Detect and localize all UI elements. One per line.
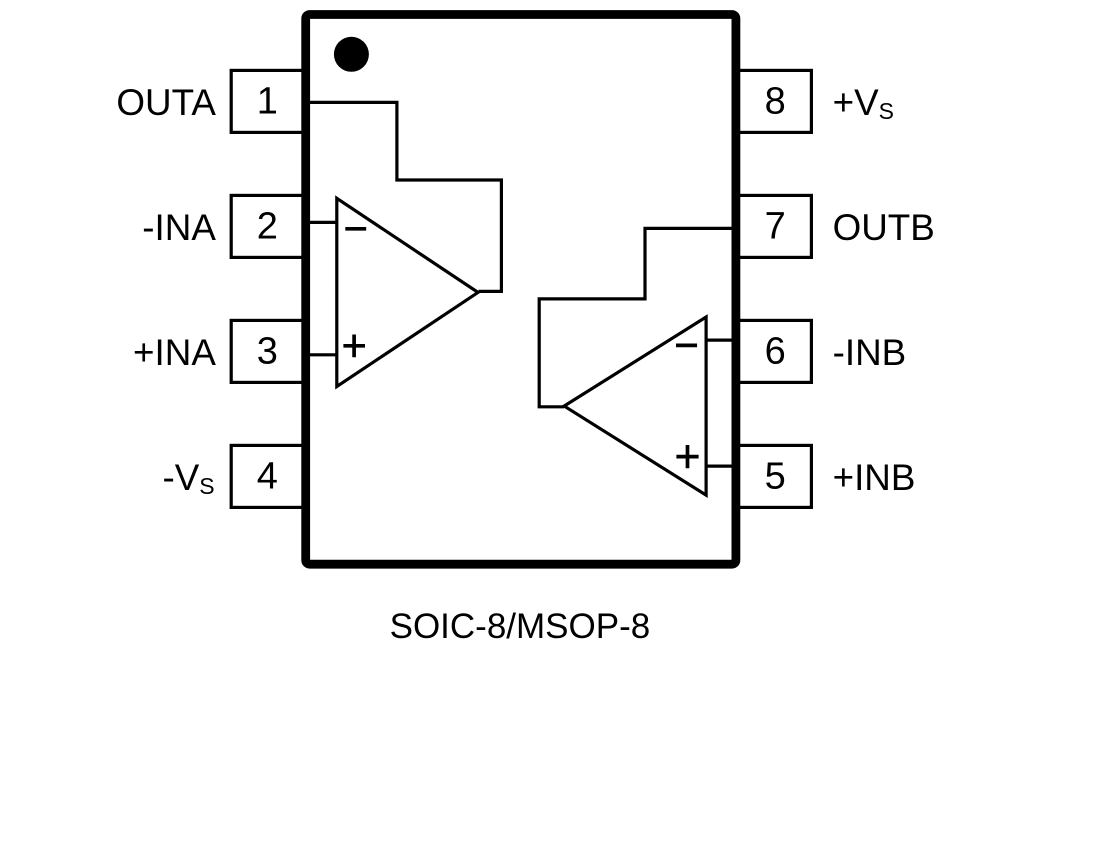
svg-text:4: 4	[257, 455, 278, 497]
svg-text:2: 2	[257, 205, 278, 247]
svg-text:7: 7	[765, 205, 786, 247]
svg-text:+INB: +INB	[833, 457, 916, 498]
svg-text:1: 1	[257, 80, 278, 122]
svg-text:-INA: -INA	[142, 207, 216, 248]
svg-text:3: 3	[257, 330, 278, 372]
svg-text:6: 6	[765, 330, 786, 372]
svg-text:OUTB: OUTB	[833, 207, 935, 248]
svg-text:-INB: -INB	[833, 332, 907, 373]
svg-text:OUTA: OUTA	[116, 82, 216, 123]
svg-text:8: 8	[765, 80, 786, 122]
svg-text:+INA: +INA	[133, 332, 216, 373]
svg-text:SOIC-8/MSOP-8: SOIC-8/MSOP-8	[390, 607, 651, 646]
svg-text:5: 5	[765, 455, 786, 497]
